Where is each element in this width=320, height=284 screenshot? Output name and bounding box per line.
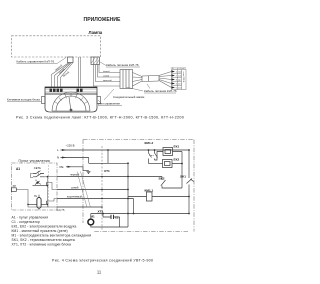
wire: heater return — [181, 152, 183, 189]
svg-text:Клеммная колодка блока: Клеммная колодка блока — [7, 97, 40, 101]
svg-text:А1 - пульт управления: А1 - пульт управления — [12, 215, 49, 219]
svg-text:Рис. 3 Схема подключения ламп:: Рис. 3 Схема подключения ламп: КГТ-В-100… — [16, 116, 184, 120]
wire bundle: control wires fan — [52, 63, 74, 88]
svg-text:Цвет проводов: Цвет проводов — [171, 68, 187, 70]
svg-text:Кабель питания КзП-76: Кабель питания КзП-76 — [144, 89, 177, 93]
svg-text:ЕК1, ЕК2 - электронагреватели: ЕК1, ЕК2 - электронагреватели воздуха — [12, 224, 77, 228]
svg-text:Лампа: Лампа — [89, 30, 103, 35]
svg-text:красный: красный — [103, 79, 112, 82]
svg-text:белый: белый — [103, 70, 110, 73]
svg-text:синий: синий — [71, 186, 79, 190]
connector X1 (lamp control plug) — [68, 57, 74, 63]
svg-text:ХТ2: ХТ2 — [98, 209, 104, 213]
svg-text:синий: синий — [103, 75, 110, 78]
svg-text:Кабель управления КзП-76: Кабель управления КзП-76 — [17, 60, 55, 64]
wires: panel to unit (черный/синий/коричневый) — [57, 177, 162, 208]
svg-text:ЕК1: ЕК1 — [174, 144, 180, 148]
tiny wire labels — [103, 70, 112, 82]
labels: Соединительный зажим / узел управления — [126, 87, 143, 91]
panel internal wiring — [16, 174, 57, 208]
svg-text:КМ1.2: КМ1.2 — [145, 141, 154, 145]
svg-text:SK2: SK2 — [159, 176, 165, 180]
legend list — [12, 215, 92, 246]
capacitor С1 — [111, 215, 114, 219]
svg-text:М1 - электродвигатель вентилят: М1 - электродвигатель вентилятора охлажд… — [12, 233, 92, 237]
svg-text:ХТ1, ХТ2 - клеммные колодки бл: ХТ1, ХТ2 - клеммные колодки блока — [12, 242, 72, 246]
svg-text:Рис. 4 Схема электрическая сое: Рис. 4 Схема электрическая соединений УВ… — [52, 258, 153, 262]
svg-text:~220 В: ~220 В — [66, 143, 75, 147]
pushbutton SB1 — [36, 181, 38, 183]
svg-text:Кабель питания КзП-76: Кабель питания КзП-76 — [106, 63, 139, 67]
wire junctions — [107, 149, 190, 199]
side tabs — [42, 97, 46, 104]
wire pair to right terminals — [79, 57, 81, 87]
wires: internal unit network — [89, 150, 189, 227]
unit enclosure boundary (dash-dot) — [83, 140, 194, 232]
svg-text:КМ1 - магнитный пускатель (рел: КМ1 - магнитный пускатель (реле) — [12, 229, 68, 233]
wire comb: supply wires — [94, 65, 121, 87]
svg-text:Соединительный зажим: Соединительный зажим — [113, 95, 144, 99]
svg-text:А1: А1 — [16, 167, 20, 171]
svg-text:сеть 220 В: сеть 220 В — [182, 72, 184, 83]
cable gland (supply cable entry) — [91, 57, 100, 65]
wire name labels (черный/синий/белый) — [54, 64, 70, 78]
svg-text:ХТ1: ХТ1 — [104, 169, 110, 173]
connector block X2 (hatched) — [120, 70, 133, 89]
svg-text:коричневый: коричневый — [67, 195, 82, 199]
svg-text:М1: М1 — [91, 214, 95, 218]
dial scale arcs and needle — [52, 92, 90, 111]
wire arrowheads (pins 1-5) — [172, 70, 175, 88]
svg-text:ЕК2: ЕК2 — [174, 157, 180, 161]
lamp dashed box — [12, 36, 101, 57]
wires: motor circuit — [91, 214, 189, 228]
svg-text:СЕТЬ: СЕТЬ — [34, 166, 41, 170]
terminal block contacts — [50, 89, 83, 92]
terminal strip — [45, 87, 97, 94]
control unit (dial device) — [42, 87, 101, 112]
svg-text:Пульт управления: Пульт управления — [19, 159, 50, 163]
svg-text:SK1, SK2 - термовыключатели за: SK1, SK2 - термовыключатели защиты — [12, 238, 76, 242]
wire: N drop — [88, 158, 90, 164]
body — [45, 94, 97, 112]
svg-text:4х0,75: 4х0,75 — [56, 208, 65, 212]
panel dash-dot box — [12, 163, 58, 210]
dial ticks — [55, 93, 88, 104]
svg-text:С1 - конденсатор: С1 - конденсатор — [12, 220, 40, 224]
ground (PE) — [83, 167, 91, 174]
svg-text:жлт: жлт — [178, 84, 182, 86]
wire fan out to pin table — [159, 72, 172, 88]
svg-text:узел управления: узел управления — [98, 101, 120, 105]
svg-text:SK1: SK1 — [180, 174, 186, 178]
svg-text:РЕ: РЕ — [60, 165, 64, 169]
svg-text:ПРИЛОЖЕНИЕ: ПРИЛОЖЕНИЕ — [84, 17, 122, 23]
svg-text:С1: С1 — [115, 216, 119, 220]
terminal blocks ХТ1 / ХТ2 (dashed line) — [101, 146, 103, 230]
svg-text:N: N — [57, 155, 59, 159]
svg-text:11: 11 — [97, 269, 102, 274]
wire fan converge into cable — [133, 73, 143, 87]
cable run (supply cable) — [142, 76, 159, 82]
